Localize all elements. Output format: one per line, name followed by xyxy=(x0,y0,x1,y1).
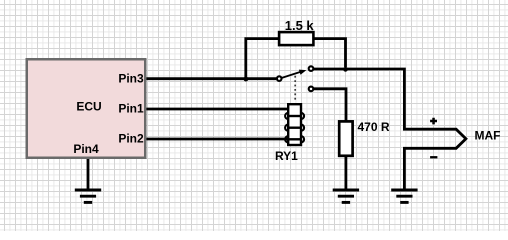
resistor R1 body xyxy=(279,32,313,45)
svg-text:MAF: MAF xyxy=(475,129,501,143)
svg-text:Pin2: Pin2 xyxy=(118,132,144,146)
wire left leg of resistor 1.5k xyxy=(246,39,279,79)
junction node A on Pin3 wire xyxy=(244,77,249,82)
switch SW pole contact circle xyxy=(277,76,282,81)
wire Pin2 to coil bottom xyxy=(147,138,289,141)
ground symbol under MAF xyxy=(391,190,417,202)
plus polarity mark xyxy=(430,118,437,125)
ground symbol under ECU Pin4 xyxy=(75,190,101,202)
resistor R2 470R body xyxy=(339,121,352,155)
svg-text:Pin1: Pin1 xyxy=(118,102,144,116)
svg-text:470 R: 470 R xyxy=(358,120,390,134)
dashed actuator link to relay coil xyxy=(294,76,296,102)
wire lower throw to resistor 470R xyxy=(314,89,346,122)
switch blade xyxy=(281,71,302,78)
ECU module box xyxy=(27,59,146,158)
wire MAF minus to ground xyxy=(403,148,406,190)
wire Pin1 to coil top xyxy=(147,108,289,111)
MAF connector body xyxy=(403,129,466,148)
junction node B under 1.5k right leg xyxy=(343,67,348,72)
svg-text:1.5 k: 1.5 k xyxy=(285,18,315,33)
switch lower throw contact circle xyxy=(309,87,314,92)
wire upper throw to MAF plus, with corner xyxy=(314,69,405,129)
svg-text:Pin3: Pin3 xyxy=(118,71,144,85)
switch blade arrowhead xyxy=(299,70,307,75)
switch upper throw contact circle xyxy=(309,66,314,71)
minus polarity mark xyxy=(430,156,437,158)
svg-text:RY1: RY1 xyxy=(275,149,298,163)
wire Pin4 to ground xyxy=(87,159,90,190)
wire right leg of resistor 1.5k xyxy=(315,39,346,67)
svg-text:Pin4: Pin4 xyxy=(73,142,99,156)
wire Pin3 to switch pole xyxy=(147,77,277,80)
relay coil RY1 body xyxy=(285,104,304,145)
wire 470R to ground xyxy=(344,156,347,190)
ground symbol under 470R xyxy=(333,190,359,202)
svg-text:ECU: ECU xyxy=(76,100,101,114)
